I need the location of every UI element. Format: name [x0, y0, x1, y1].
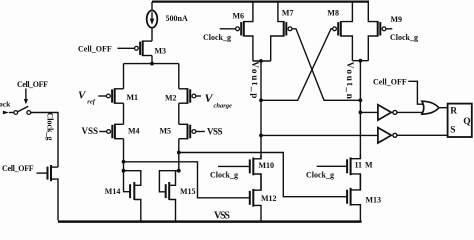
VSS bottom rail	[58, 220, 362, 223]
net label Cell_OFF (switch control)	[17, 80, 48, 105]
transistor M8	[327, 2, 352, 61]
svg-text:500nA: 500nA	[166, 14, 188, 23]
node Vout_n to inverter1	[359, 111, 363, 115]
svg-text:Vout_p: Vout_p	[249, 61, 259, 100]
wire Vout_p to inverter2	[261, 134, 378, 136]
wire switch to Clock_g column	[31, 113, 58, 168]
transistor M12	[250, 174, 277, 221]
node middle column M15 drain	[177, 169, 181, 173]
svg-text:M10: M10	[259, 161, 275, 170]
wire M3 to tail node	[151, 56, 153, 64]
svg-text:M7: M7	[282, 8, 294, 17]
svg-text:M4: M4	[128, 127, 140, 136]
wire tail to M1	[123, 64, 125, 89]
svg-text:M15: M15	[180, 187, 196, 196]
transistor M9	[368, 2, 402, 61]
svg-text:Clock_g: Clock_g	[210, 171, 238, 180]
net label V_ref	[78, 90, 96, 106]
svg-text:Cell_OFF: Cell_OFF	[2, 164, 34, 173]
current source I1 500nA	[147, 2, 188, 28]
input terminal Clock	[0, 100, 14, 115]
transistor M5	[160, 124, 205, 140]
wire M2 to M5	[178, 103, 180, 124]
node Vout_p to inverter2	[259, 134, 263, 138]
wire cross-couple M8 gate to Vout_p	[261, 29, 333, 101]
transistor M4	[99, 124, 139, 140]
wire M1 to M4	[123, 103, 125, 124]
transistor M15	[159, 171, 195, 221]
svg-text:M12: M12	[261, 194, 277, 203]
wire middle column to M13 gate	[179, 153, 347, 197]
svg-text:M9: M9	[391, 15, 403, 24]
wire left column to M12 gate	[124, 162, 250, 198]
node Vout_p cross tap	[259, 98, 263, 102]
wire Vout_n column	[359, 61, 361, 159]
wire cross-couple M7 gate to Vout_n	[292, 29, 361, 101]
wire M4 down left column	[123, 139, 125, 171]
transistor M1	[98, 88, 138, 104]
svg-text:M6: M6	[233, 12, 245, 21]
svg-text:Clock_g: Clock_g	[390, 33, 418, 42]
svg-text:M2: M2	[165, 94, 177, 103]
svg-text:VSS: VSS	[82, 126, 99, 136]
RS latch U4	[448, 104, 472, 137]
transistor M6	[220, 2, 253, 61]
node left column tap	[122, 160, 126, 164]
svg-text:Vout_n: Vout_n	[344, 62, 354, 101]
wire Cell_OFF to OR gate	[408, 81, 423, 104]
node Vout_p top	[259, 59, 263, 63]
svg-text:11: 11	[355, 160, 363, 169]
wire M8/M9 drain join	[352, 60, 368, 62]
transistor M2	[165, 88, 201, 104]
wire inverter2 out to S input	[397, 134, 448, 136]
wire tail node horizontal	[124, 63, 179, 65]
wire OR out to R input	[439, 107, 448, 109]
node Vout_n cross tap	[359, 98, 363, 102]
transistor M14	[105, 171, 141, 221]
wire Vout_p column	[260, 61, 262, 159]
wire current source to M3	[151, 28, 153, 41]
svg-text:charge: charge	[214, 103, 233, 110]
svg-text:M13: M13	[366, 196, 382, 205]
svg-text:M3: M3	[155, 47, 167, 56]
svg-text:M: M	[365, 160, 373, 169]
svg-text:Q: Q	[463, 117, 470, 127]
svg-text:M8: M8	[327, 9, 339, 18]
svg-text:M1: M1	[127, 93, 139, 102]
OR gate U3	[422, 101, 439, 114]
wire M6/M7 drain join	[253, 60, 271, 62]
svg-text:M14: M14	[105, 187, 121, 196]
svg-text:Cell_OFF: Cell_OFF	[17, 80, 48, 89]
svg-text:Cell_OFF: Cell_OFF	[373, 77, 407, 86]
wire inverter1 out to OR gate	[397, 111, 424, 113]
svg-text:R: R	[450, 107, 457, 117]
svg-text:Cell_OFF: Cell_OFF	[78, 44, 112, 53]
transistor M11	[317, 155, 373, 190]
transistor M3	[118, 41, 167, 57]
wire M5 down middle column	[178, 139, 180, 171]
svg-text:ref: ref	[87, 99, 95, 106]
svg-text:ock: ock	[0, 100, 11, 109]
transistor M7	[271, 2, 294, 61]
net label V_charge	[205, 91, 233, 110]
svg-text:M5: M5	[160, 127, 172, 136]
node left column M14 drain	[122, 169, 126, 173]
inverter U2	[378, 128, 397, 143]
svg-text:Clock_g: Clock_g	[203, 33, 231, 42]
transistor M10	[218, 155, 274, 190]
svg-text:V: V	[205, 91, 214, 105]
wire Vout_n to inverter1	[360, 111, 378, 113]
node tail junction	[150, 62, 154, 66]
svg-text:VSS: VSS	[207, 127, 223, 137]
node middle column tap	[177, 151, 181, 155]
svg-text:VSS: VSS	[214, 210, 230, 221]
svg-text:S: S	[450, 126, 455, 136]
svg-text:Clock_g: Clock_g	[306, 171, 334, 180]
inverter U1	[378, 105, 397, 120]
switch S1	[14, 106, 31, 114]
transistor M13	[347, 174, 381, 221]
transistor MP1 Cell_OFF pulldown	[37, 165, 59, 221]
wire tail to M2	[178, 64, 180, 89]
VDD top supply rail wire	[152, 1, 369, 3]
svg-text:Clock_g: Clock_g	[46, 113, 55, 141]
node Vout_n top	[359, 59, 363, 63]
svg-text:V: V	[78, 90, 87, 102]
